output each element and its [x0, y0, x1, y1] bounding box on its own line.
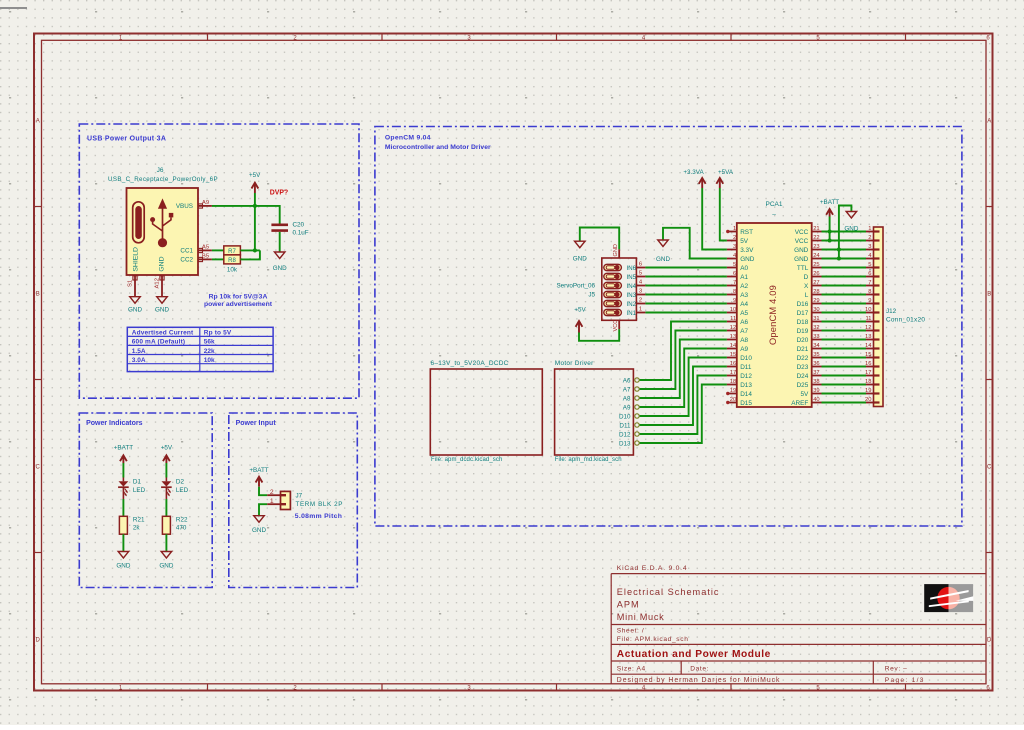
svg-text:Conn_01x20: Conn_01x20: [886, 317, 925, 324]
section box USB Power Output 3A: [79, 124, 359, 398]
svg-text:Power Indicators: Power Indicators: [86, 420, 143, 427]
svg-text:LED: LED: [133, 487, 146, 494]
svg-text:ServoPort_06: ServoPort_06: [556, 283, 595, 290]
svg-text:12: 12: [865, 325, 871, 331]
svg-text:D20: D20: [797, 337, 809, 344]
svg-text:J7: J7: [296, 493, 303, 500]
svg-text:Page: 1/3: Page: 1/3: [885, 677, 925, 684]
svg-text:IN6: IN6: [627, 265, 637, 272]
svg-text:APM: APM: [617, 600, 640, 610]
svg-text:19: 19: [865, 388, 871, 394]
svg-text:GND: GND: [128, 307, 142, 314]
svg-text:35: 35: [813, 352, 819, 358]
svg-text:A7: A7: [623, 386, 631, 393]
wire PCA1 pin 22 to J12 pin 2: [822, 240, 867, 242]
resistor R7: [224, 246, 241, 255]
svg-text:D: D: [987, 637, 992, 643]
svg-text:IN1: IN1: [627, 310, 637, 317]
svg-text:14: 14: [865, 343, 872, 349]
svg-text:5V: 5V: [800, 391, 809, 398]
svg-text:–: –: [772, 212, 776, 219]
power +5V (USB): [249, 172, 261, 206]
svg-text:22k: 22k: [204, 348, 215, 355]
svg-text:11: 11: [865, 316, 871, 322]
ground under C20: [273, 252, 287, 272]
svg-text:GND: GND: [252, 527, 266, 534]
title block: [610, 574, 612, 684]
wire PCA1 pin 40 to J12 pin 20: [822, 402, 867, 404]
power +5VA: [716, 169, 733, 188]
sheet 6-13V_to_5V20A_DCDC: [430, 360, 542, 463]
wire PCA1 pin 29 to J12 pin 9: [822, 303, 867, 305]
resistor R22 470: [162, 516, 188, 534]
svg-text:3: 3: [868, 244, 871, 250]
svg-text:Electrical Schematic: Electrical Schematic: [617, 587, 720, 597]
svg-text:+5V: +5V: [574, 307, 586, 314]
sheet Motor Driver: [555, 360, 640, 463]
power +BATT at PCA1: [820, 199, 839, 217]
svg-text:DVP?: DVP?: [270, 190, 288, 197]
svg-text:R8: R8: [228, 258, 236, 264]
wire CC2 to R8: [212, 258, 224, 260]
svg-text:A6: A6: [623, 377, 631, 384]
wire PCA1 pin 38 to J12 pin 18: [822, 384, 867, 386]
svg-text:+BATT: +BATT: [820, 199, 839, 206]
svg-text:Actuation and Power Module: Actuation and Power Module: [617, 649, 771, 660]
svg-text:LED: LED: [176, 487, 189, 494]
svg-text:D19: D19: [797, 328, 809, 335]
svg-text:6: 6: [868, 271, 871, 277]
wire PCA1 pin 28 to J12 pin 8: [822, 294, 867, 296]
svg-text:Power Input: Power Input: [236, 420, 277, 427]
svg-text:10: 10: [730, 307, 736, 313]
svg-text:40: 40: [813, 397, 819, 403]
svg-text:8: 8: [868, 289, 871, 295]
wire J5 IN5 to PCA1 A1: [645, 276, 727, 278]
wire C20 to GND: [279, 232, 281, 252]
wire J5 IN6 to PCA1 A0: [645, 267, 727, 269]
svg-text:GND: GND: [573, 256, 587, 263]
svg-text:+BATT: +BATT: [114, 445, 133, 452]
svg-text:SHIELD: SHIELD: [133, 247, 140, 272]
svg-text:5V: 5V: [740, 238, 749, 245]
svg-text:+5VA: +5VA: [718, 169, 734, 176]
svg-text:36: 36: [813, 361, 819, 367]
wire R8 to +5V node: [240, 250, 260, 259]
svg-text:Rp 10k for 5V@3A: Rp 10k for 5V@3A: [209, 293, 268, 300]
capacitor C20 0.1uF: [271, 222, 308, 237]
resistor R8 10k: [224, 255, 241, 274]
svg-text:A: A: [987, 118, 991, 124]
svg-text:Rp to 5V: Rp to 5V: [204, 329, 232, 336]
ground under GND pin A12: [155, 297, 169, 314]
LED D2: [161, 478, 189, 500]
svg-text:OpenCM 4.09: OpenCM 4.09: [768, 285, 778, 345]
svg-text:Advertised Current: Advertised Current: [132, 329, 194, 336]
svg-text:22: 22: [813, 235, 819, 241]
svg-text:24: 24: [813, 253, 820, 259]
svg-text:GND: GND: [794, 256, 809, 263]
svg-text:TTL: TTL: [797, 265, 809, 272]
wire PCA1 pin 30 to J12 pin 10: [822, 312, 867, 314]
svg-text:5: 5: [868, 262, 871, 268]
wire J5 GND pin to GND: [580, 228, 619, 250]
svg-text:A3: A3: [740, 292, 748, 299]
junction VCC pin 22: [828, 238, 832, 242]
ground right of PCA1: [844, 212, 858, 233]
svg-text:OpenCM 9.04: OpenCM 9.04: [385, 135, 431, 142]
svg-text:GND: GND: [155, 307, 169, 314]
svg-text:37: 37: [813, 370, 819, 376]
svg-text:29: 29: [813, 298, 819, 304]
svg-text:GND: GND: [656, 256, 670, 263]
svg-text:A6: A6: [740, 319, 748, 326]
svg-text:VBUS: VBUS: [176, 203, 193, 210]
svg-text:6: 6: [733, 271, 736, 277]
svg-text:USB_C_Receptacle_PowerOnly_6P: USB_C_Receptacle_PowerOnly_6P: [108, 176, 218, 183]
svg-text:power advertisement: power advertisement: [204, 301, 273, 308]
svg-text:Motor Driver: Motor Driver: [555, 360, 594, 367]
svg-text:GND: GND: [159, 563, 173, 570]
table advertised current: [127, 327, 273, 371]
svg-text:B: B: [987, 291, 991, 297]
svg-text:Size: A4: Size: A4: [617, 666, 646, 673]
wire Motor Driver A7 to PCA1 A7: [640, 331, 727, 390]
svg-text:R21: R21: [133, 517, 145, 524]
svg-text:VCC: VCC: [795, 238, 809, 245]
svg-text:D: D: [804, 274, 809, 281]
svg-text:CC1: CC1: [180, 248, 193, 255]
power +BATT (input): [249, 467, 268, 487]
svg-text:J12: J12: [886, 308, 897, 315]
svg-text:A: A: [36, 118, 40, 124]
svg-text:GND: GND: [794, 247, 809, 254]
svg-text:17: 17: [730, 370, 736, 376]
section box Power Input: [229, 413, 357, 588]
svg-text:D13: D13: [740, 382, 752, 389]
svg-text:IN3: IN3: [627, 292, 637, 299]
svg-text:3: 3: [733, 244, 736, 250]
svg-text:23: 23: [813, 244, 819, 250]
svg-text:TERM BLK 2P: TERM BLK 2P: [296, 501, 344, 508]
svg-text:C: C: [36, 464, 41, 470]
wire J5 VCC pin to +5V: [579, 329, 619, 341]
svg-text:D24: D24: [797, 373, 809, 380]
wire PCA1 pin 34 to J12 pin 14: [822, 348, 867, 350]
svg-text:1: 1: [868, 226, 871, 232]
svg-text:39: 39: [813, 388, 819, 394]
svg-text:J5: J5: [588, 292, 595, 299]
svg-text:+5V: +5V: [161, 445, 173, 452]
svg-text:Sheet: /: Sheet: /: [617, 627, 645, 634]
ground under SHIELD pin: [128, 297, 142, 314]
svg-text:26: 26: [813, 271, 819, 277]
svg-text:11: 11: [730, 316, 736, 322]
wire VBUS to +5V and C20: [212, 206, 280, 224]
svg-text:L: L: [805, 292, 809, 299]
power +BATT (indicator column 1): [114, 445, 133, 464]
svg-text:C: C: [987, 464, 992, 470]
svg-text:RST: RST: [740, 229, 753, 236]
wire PCA1 pin 37 to J12 pin 17: [822, 375, 867, 377]
ground left of PCA1: [656, 240, 670, 263]
power +3.3VA: [683, 169, 705, 188]
svg-text:D23: D23: [797, 364, 809, 371]
wire D2 to R22: [165, 499, 167, 516]
svg-text:D11: D11: [619, 422, 631, 429]
svg-text:IN5: IN5: [627, 274, 637, 281]
svg-text:GND: GND: [116, 563, 130, 570]
ground under R22: [159, 552, 173, 570]
junction GND pin 23: [837, 247, 841, 251]
junction VBUS/+5V: [253, 204, 257, 208]
svg-text:B: B: [36, 291, 40, 297]
svg-text:D2: D2: [176, 479, 185, 486]
svg-text:D12: D12: [740, 373, 752, 380]
svg-text:D15: D15: [740, 400, 752, 407]
wire Motor Driver A6 to PCA1 A6: [640, 322, 727, 381]
svg-text:Date:: Date:: [690, 666, 709, 673]
svg-text:19: 19: [730, 388, 736, 394]
wire GND to GND pins 23/24: [839, 206, 852, 259]
wire Motor Driver A8 to PCA1 A8: [640, 340, 727, 399]
svg-text:D12: D12: [619, 431, 631, 438]
svg-text:D14: D14: [740, 391, 752, 398]
power +5V at J5: [574, 307, 586, 333]
wire J5 IN2 to PCA1 A4: [645, 303, 727, 305]
svg-text:IN4: IN4: [627, 283, 637, 290]
svg-text:30: 30: [813, 307, 819, 313]
svg-text:D11: D11: [740, 364, 752, 371]
svg-text:S1: S1: [128, 280, 134, 287]
svg-text:7: 7: [868, 280, 871, 286]
svg-text:R22: R22: [176, 517, 188, 524]
svg-text:13: 13: [730, 334, 736, 340]
svg-text:File: APM.kicad_sch: File: APM.kicad_sch: [617, 636, 689, 643]
svg-text:D10: D10: [619, 413, 631, 420]
svg-text:Mini Muck: Mini Muck: [617, 612, 665, 622]
unconnected pin RST: [726, 230, 729, 233]
svg-text:+BATT: +BATT: [249, 467, 268, 474]
svg-text:2: 2: [270, 489, 274, 496]
section box OpenCM 9.04 Microcontroller and Motor Driver: [375, 127, 962, 527]
svg-text:+3.3VA: +3.3VA: [683, 169, 704, 176]
power +5V (indicator column 2): [161, 445, 173, 464]
svg-text:33: 33: [813, 334, 819, 340]
svg-text:Designed by Herman Darjes for: Designed by Herman Darjes for MiniMuck: [617, 677, 781, 684]
ground under J7: [252, 516, 266, 534]
svg-text:15: 15: [865, 352, 871, 358]
svg-text:File: apm_md.kicad_sch: File: apm_md.kicad_sch: [555, 457, 622, 463]
svg-text:A8: A8: [623, 395, 631, 402]
svg-text:16: 16: [865, 361, 871, 367]
wire PCA1 GND pin 4 to GND: [663, 228, 727, 259]
wire Motor Driver D13 to PCA1 D13: [640, 385, 727, 444]
junction VCC pin 21: [828, 229, 832, 233]
svg-text:21: 21: [813, 226, 819, 232]
svg-text:17: 17: [865, 370, 871, 376]
svg-text:7: 7: [733, 280, 736, 286]
svg-text:A5: A5: [202, 244, 210, 250]
svg-text:20: 20: [730, 397, 736, 403]
wire J5 IN4 to PCA1 A2: [645, 285, 727, 287]
wire PCA1 pin 39 to J12 pin 19: [822, 393, 867, 395]
svg-text:VCC: VCC: [795, 229, 809, 236]
svg-text:1: 1: [639, 306, 642, 312]
svg-text:D18: D18: [797, 319, 809, 326]
svg-text:32: 32: [813, 325, 819, 331]
svg-text:28: 28: [813, 289, 819, 295]
svg-text:38: 38: [813, 379, 819, 385]
section box Power Indicators: [79, 413, 212, 588]
svg-text:A2: A2: [740, 283, 748, 290]
wire PCA1 pin 25 to J12 pin 5: [822, 267, 867, 269]
wire J7 pin 1 to GND: [259, 504, 267, 516]
svg-text:5.08mm Pitch: 5.08mm Pitch: [295, 513, 342, 520]
svg-text:D16: D16: [797, 301, 809, 308]
svg-text:10k: 10k: [204, 357, 215, 364]
wire Motor Driver D11 to PCA1 D11: [640, 367, 727, 426]
wire R22 to GND: [165, 534, 167, 551]
unconnected pin D14: [726, 392, 729, 395]
svg-text:1.5A: 1.5A: [132, 348, 146, 355]
svg-text:3.3V: 3.3V: [740, 247, 754, 254]
svg-text:1: 1: [733, 226, 736, 232]
wire Motor Driver A9 to PCA1 A9: [640, 349, 727, 408]
connector J7 TERM BLK 2P: [267, 489, 343, 510]
svg-text:PCA1: PCA1: [766, 201, 783, 208]
svg-text:A9: A9: [623, 404, 631, 411]
svg-text:A1: A1: [740, 274, 748, 281]
note Rp 10k power advertisement: [204, 293, 273, 308]
svg-text:13: 13: [865, 334, 871, 340]
wire Motor Driver D12 to PCA1 D12: [640, 376, 727, 435]
wire +BATT to J7 pin 2: [259, 487, 267, 496]
svg-text:R7: R7: [228, 249, 236, 255]
junction R7/+5V: [253, 248, 257, 252]
unconnected pin D15: [726, 401, 729, 404]
connector J12 Conn_01x20: [865, 226, 925, 407]
svg-text:470: 470: [176, 525, 187, 532]
svg-text:AREF: AREF: [791, 400, 808, 407]
svg-text:D17: D17: [797, 310, 809, 317]
svg-text:18: 18: [730, 379, 736, 385]
wire PCA1 pin 32 to J12 pin 12: [822, 330, 867, 332]
svg-text:D10: D10: [740, 355, 752, 362]
svg-text:6–13V_to_5V20A_DCDC: 6–13V_to_5V20A_DCDC: [431, 360, 509, 367]
wire PCA1 pin 21 to J12 pin 1: [822, 231, 867, 233]
wire Motor Driver D10 to PCA1 D10: [640, 358, 727, 417]
svg-text:16: 16: [730, 361, 736, 367]
svg-text:Microcontroller and Motor Driv: Microcontroller and Motor Driver: [385, 144, 491, 151]
svg-text:A8: A8: [740, 337, 748, 344]
svg-text:20: 20: [865, 397, 871, 403]
svg-text:CC2: CC2: [180, 257, 193, 264]
wire PCA1 pin 27 to J12 pin 7: [822, 285, 867, 287]
svg-text:2k: 2k: [133, 525, 141, 532]
svg-text:Rev: –: Rev: –: [885, 666, 908, 673]
microcontroller PCA1 OpenCM 4.09: [727, 201, 822, 407]
svg-text:A7: A7: [740, 328, 748, 335]
svg-text:GND: GND: [740, 256, 755, 263]
wire PCA1 pin 33 to J12 pin 13: [822, 339, 867, 341]
junction GND pin 24: [837, 256, 841, 260]
wire +5V vertical to R7: [254, 206, 256, 251]
wire PCA1 pin 26 to J12 pin 6: [822, 276, 867, 278]
svg-text:IN2: IN2: [627, 301, 637, 308]
svg-text:D: D: [36, 637, 41, 643]
svg-text:USB Power Output 3A: USB Power Output 3A: [87, 136, 166, 143]
connector J5 ServoPort_06: [556, 244, 645, 331]
svg-text:9: 9: [868, 298, 871, 304]
svg-text:0.1uF: 0.1uF: [293, 230, 309, 237]
svg-text:+5V: +5V: [249, 172, 261, 179]
connector J6 USB_C_Receptacle_PowerOnly_6P: [108, 167, 218, 297]
wire PCA1 pin 36 to J12 pin 16: [822, 366, 867, 368]
svg-text:2: 2: [639, 297, 642, 303]
svg-text:GND: GND: [844, 226, 858, 233]
wire +5VA to PCA1 5V: [720, 188, 727, 241]
svg-text:2: 2: [868, 235, 871, 241]
svg-text:9: 9: [733, 298, 736, 304]
svg-text:C20: C20: [293, 222, 305, 229]
wire CC1 to R7: [212, 249, 224, 251]
resistor R21 2k: [119, 516, 145, 534]
wire PCA1 pin 23 to J12 pin 3: [822, 249, 867, 251]
svg-text:1: 1: [270, 498, 274, 505]
svg-text:27: 27: [813, 280, 819, 286]
svg-text:A4: A4: [740, 301, 748, 308]
svg-text:34: 34: [813, 343, 820, 349]
svg-text:600 mA (Default): 600 mA (Default): [132, 339, 185, 346]
svg-text:J6: J6: [157, 167, 164, 174]
wire R21 to GND: [122, 534, 124, 551]
svg-text:GND: GND: [273, 265, 287, 272]
wire PCA1 pin 24 to J12 pin 4: [822, 258, 867, 260]
svg-text:KiCad E.D.A. 9.0.4: KiCad E.D.A. 9.0.4: [617, 565, 688, 572]
svg-text:A5: A5: [740, 310, 748, 317]
ground under R21: [116, 552, 130, 570]
svg-text:14: 14: [730, 343, 737, 349]
svg-text:10k: 10k: [227, 267, 238, 274]
svg-text:D25: D25: [797, 382, 809, 389]
ground at J5: [573, 241, 587, 262]
svg-text:D22: D22: [797, 355, 809, 362]
svg-text:A0: A0: [740, 265, 748, 272]
wire PCA1 pin 35 to J12 pin 15: [822, 357, 867, 359]
svg-text:56k: 56k: [204, 339, 215, 346]
svg-text:D13: D13: [619, 440, 631, 447]
svg-text:31: 31: [813, 316, 819, 322]
svg-text:File: apm_dcdc.kicad_sch: File: apm_dcdc.kicad_sch: [431, 457, 502, 463]
svg-text:2: 2: [733, 235, 736, 241]
wire J5 IN1 to PCA1 A5: [645, 312, 727, 314]
svg-text:VCC: VCC: [613, 320, 619, 332]
svg-text:10: 10: [865, 307, 871, 313]
svg-text:8: 8: [733, 289, 736, 295]
wire +BATT to D1: [122, 463, 124, 478]
logo MiniMuck: [924, 584, 973, 612]
wire D1 to R21: [122, 499, 124, 516]
svg-text:D21: D21: [797, 346, 809, 353]
svg-text:X: X: [804, 283, 809, 290]
wire PCA1 pin 31 to J12 pin 11: [822, 321, 867, 323]
wire J5 IN3 to PCA1 A3: [645, 294, 727, 296]
svg-text:A9: A9: [740, 346, 748, 353]
svg-text:15: 15: [730, 352, 736, 358]
svg-text:GND: GND: [613, 244, 619, 256]
wire R7 to +5V node: [240, 249, 260, 251]
